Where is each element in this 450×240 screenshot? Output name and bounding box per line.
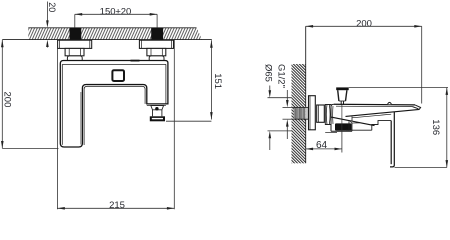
logo square on body bbox=[112, 70, 124, 81]
escutcheon (side) bbox=[309, 96, 316, 130]
wall hatch (front view) bbox=[28, 28, 202, 40]
svg-text:G1/2": G1/2" bbox=[275, 64, 286, 88]
mounting bolt 1 (black, in wall) bbox=[70, 28, 82, 40]
escutcheon 1 (front) bbox=[58, 40, 92, 48]
dimension 151 (right height) bbox=[210, 40, 213, 119]
hex nut 2 (front) bbox=[147, 48, 166, 55]
clip bump on spout bbox=[388, 102, 392, 104]
wall bottom surface line bbox=[2, 39, 212, 41]
lever stem bbox=[341, 101, 343, 105]
cartridge black band (side) bbox=[335, 123, 352, 130]
facet nut (side) bbox=[325, 105, 331, 125]
dimension 215 (bottom width) bbox=[57, 40, 174, 210]
supply pipe thread through wall bbox=[294, 107, 309, 119]
spout aerator collar (front) bbox=[151, 106, 164, 110]
svg-text:136: 136 bbox=[430, 119, 441, 135]
dimension 64 bbox=[306, 148, 342, 151]
dimension 200 (left height) bbox=[1, 40, 4, 149]
white wedge highlight bbox=[350, 121, 359, 123]
collar 2 bbox=[149, 56, 164, 61]
valve body (side) bbox=[325, 104, 352, 132]
under-valve box bbox=[346, 121, 372, 130]
lever knob top slab bbox=[336, 87, 349, 90]
label G1/2" with arrows bbox=[286, 90, 289, 139]
collar 1 bbox=[67, 56, 82, 61]
aerator dot bbox=[155, 107, 158, 110]
dimension 200 (top, side view) bbox=[306, 25, 422, 28]
escutcheon 2 (front) bbox=[139, 40, 173, 48]
svg-text:150±20: 150±20 bbox=[100, 7, 132, 18]
svg-text:Ø65: Ø65 bbox=[262, 64, 273, 82]
waterfall blade (downpipe) bbox=[390, 112, 394, 167]
centerline bolt 1 bbox=[74, 14, 76, 27]
spout tip bevel bbox=[413, 105, 421, 110]
wall hatch (side view) bbox=[292, 64, 306, 163]
mounting bolt 2 (black, in wall) bbox=[151, 28, 163, 40]
aerator shank bbox=[153, 110, 162, 117]
extension line outlet bottom bbox=[166, 120, 211, 122]
spout underside diagonals bbox=[331, 109, 419, 125]
svg-text:20: 20 bbox=[47, 2, 57, 12]
body top edge thick segment bbox=[131, 60, 140, 62]
dimension 136 (side height) bbox=[446, 88, 449, 168]
centerline bolt 2 bbox=[156, 14, 158, 27]
label Ø65 with arrows bbox=[268, 86, 292, 151]
svg-text:151: 151 bbox=[212, 73, 223, 89]
extension line lever top bbox=[349, 87, 448, 89]
extension line handle bottom bbox=[2, 147, 58, 149]
extension line blade bottom bbox=[395, 167, 447, 169]
under-spout shelf bbox=[372, 121, 391, 131]
svg-text:200: 200 bbox=[356, 19, 372, 30]
outlet flange (front) bbox=[150, 116, 165, 121]
extension line valve axis bbox=[341, 132, 343, 153]
extension line spout tip bbox=[421, 26, 423, 103]
svg-text:64: 64 bbox=[316, 140, 328, 151]
lever axis line through body bbox=[341, 105, 343, 132]
dimension 150±20 bbox=[75, 13, 157, 16]
spout (side) top edge bbox=[334, 104, 415, 106]
faucet body outline (front) bbox=[60, 61, 168, 148]
connection nut (side) bbox=[317, 105, 325, 122]
dimension 20 (wall thickness) bbox=[46, 2, 49, 48]
pipe extension lines bbox=[283, 107, 294, 119]
svg-text:215: 215 bbox=[109, 200, 125, 211]
wall face line (side) + extension up to 200 dim bbox=[305, 26, 307, 163]
svg-text:200: 200 bbox=[2, 92, 13, 108]
body inner contour lines bbox=[62, 64, 166, 145]
hex nut 1 (front) bbox=[65, 48, 84, 55]
lever knob sides bbox=[338, 90, 347, 101]
